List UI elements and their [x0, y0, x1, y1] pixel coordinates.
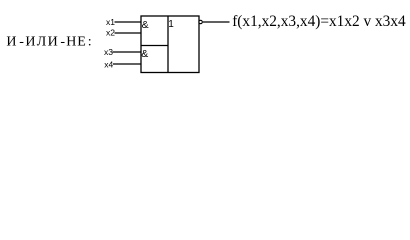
svg-text:x1: x1	[106, 17, 115, 27]
svg-text:x2: x2	[106, 28, 115, 38]
svg-text:x4: x4	[104, 59, 113, 69]
wire x3	[113, 51, 142, 53]
divider between AND column and OR column	[167, 16, 169, 73]
inversion bubble	[199, 20, 202, 23]
svg-text:f(x1,x2,x3,x4)=x1x2 v x3x4: f(x1,x2,x3,x4)=x1x2 v x3x4	[232, 13, 406, 30]
svg-text:&: &	[142, 19, 149, 31]
svg-text:И-ИЛИ-НЕ:: И-ИЛИ-НЕ:	[6, 34, 91, 49]
wire x1	[115, 21, 142, 23]
wire x2	[115, 32, 142, 34]
svg-text:&: &	[141, 48, 148, 60]
gate body outline	[141, 16, 199, 73]
svg-text:1: 1	[168, 19, 174, 30]
wire x4	[113, 63, 141, 65]
divider between upper and lower AND sections	[141, 45, 168, 47]
output wire f	[203, 21, 230, 23]
svg-text:x3: x3	[104, 47, 113, 57]
